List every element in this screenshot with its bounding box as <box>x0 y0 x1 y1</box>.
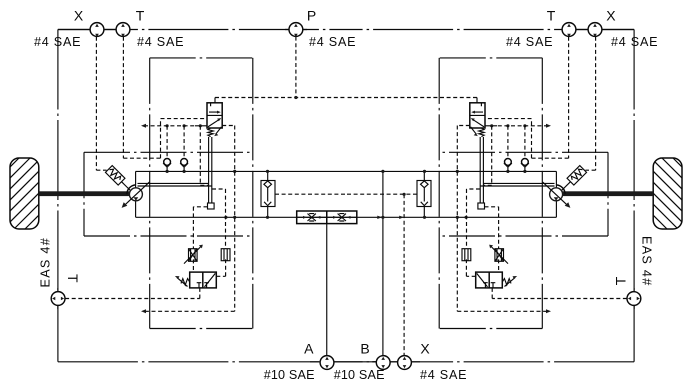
svg-text:#4 SAE: #4 SAE <box>137 35 184 49</box>
svg-text:X: X <box>606 8 616 24</box>
svg-text:EAS 4#: EAS 4# <box>39 237 53 288</box>
svg-text:X: X <box>420 341 430 357</box>
svg-text:T: T <box>65 274 81 283</box>
svg-text:P: P <box>307 8 316 24</box>
svg-text:T: T <box>612 276 628 285</box>
svg-text:X: X <box>74 8 84 24</box>
svg-text:A: A <box>304 341 314 357</box>
svg-text:#10 SAE: #10 SAE <box>334 368 385 382</box>
svg-text:T: T <box>547 8 556 24</box>
svg-text:#10 SAE: #10 SAE <box>264 368 315 382</box>
svg-text:#4 SAE: #4 SAE <box>611 35 658 49</box>
svg-text:T: T <box>136 8 145 24</box>
svg-text:#4 SAE: #4 SAE <box>420 368 467 382</box>
svg-text:#4 SAE: #4 SAE <box>506 35 553 49</box>
svg-text:B: B <box>360 341 369 357</box>
svg-text:#4 SAE: #4 SAE <box>34 35 81 49</box>
svg-text:EAS 4#: EAS 4# <box>639 236 653 287</box>
svg-text:#4 SAE: #4 SAE <box>309 35 356 49</box>
